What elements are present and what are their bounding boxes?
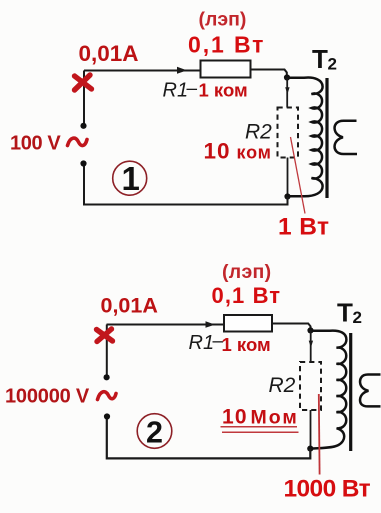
wire: node to R2 top with arrow — [310, 330, 312, 362]
svg-text:R1: R1 — [163, 80, 189, 102]
terminal dot upper — [80, 123, 86, 129]
resistor R2 (dashed) — [278, 108, 299, 158]
terminal dot lower — [80, 160, 86, 166]
terminal dot lower — [104, 413, 110, 419]
wire: left vertical upper — [83, 71, 85, 126]
svg-text:–: – — [187, 79, 198, 100]
wire: bottom return to source — [107, 419, 310, 458]
circled 1 — [113, 161, 147, 195]
wire: top horizontal from source to R1 — [84, 70, 200, 72]
wire: R2 bottom to bottom node — [310, 410, 312, 446]
svg-text:1000 Вт: 1000 Вт — [284, 476, 371, 503]
wire: node to R2 top with arrow — [286, 78, 288, 108]
svg-text:2: 2 — [353, 308, 362, 327]
svg-text:1 Вт: 1 Вт — [278, 214, 329, 241]
pointer line to 1000 Вт — [318, 394, 321, 475]
svg-text:(лэп): (лэп) — [222, 261, 271, 283]
breaker X mark — [97, 329, 113, 342]
svg-text:0,01А: 0,01А — [101, 294, 158, 318]
svg-text:1: 1 — [122, 160, 140, 197]
svg-text:2: 2 — [146, 416, 163, 450]
breaker X mark — [75, 75, 92, 90]
svg-text:ком: ком — [237, 143, 272, 163]
transformer T2 primary winding — [312, 331, 346, 449]
wire: R1 to top node — [251, 70, 287, 78]
AC source squiggle — [98, 392, 117, 400]
transformer T2 primary winding — [290, 78, 323, 197]
transformer secondary winding — [360, 375, 380, 407]
resistor R1 — [224, 315, 272, 332]
node D (bottom junction) — [307, 446, 313, 452]
transformer core — [325, 78, 328, 198]
svg-text:0,01А: 0,01А — [79, 41, 139, 66]
svg-text:10: 10 — [204, 139, 231, 164]
wire: left vertical upper — [106, 325, 108, 378]
wire: bottom return to source — [84, 166, 288, 205]
svg-text:2: 2 — [328, 55, 337, 74]
svg-text:100000 V: 100000 V — [5, 386, 90, 408]
svg-text:R2: R2 — [269, 374, 296, 397]
transformer secondary winding — [335, 121, 357, 154]
svg-text:10: 10 — [222, 406, 248, 429]
svg-text:1 ком: 1 ком — [222, 334, 271, 355]
svg-text:T: T — [312, 44, 328, 74]
node A (top junction) — [284, 74, 290, 80]
node B (bottom junction) — [284, 193, 290, 199]
svg-text:R1: R1 — [189, 332, 215, 354]
circled 2 — [137, 414, 172, 449]
wire: R2 bottom to bottom node — [287, 158, 289, 195]
terminal dot upper — [104, 374, 110, 380]
AC source squiggle — [68, 138, 88, 145]
svg-text:100 V: 100 V — [10, 133, 61, 155]
svg-text:(лэп): (лэп) — [199, 9, 247, 31]
wire: top horizontal from source to R1 — [107, 324, 225, 326]
svg-text:Мом: Мом — [251, 407, 299, 429]
pointer line to 1 Вт — [291, 137, 306, 214]
svg-text:0,1 Вт: 0,1 Вт — [188, 32, 265, 58]
resistor R1 — [201, 61, 251, 78]
node C (top junction) — [307, 327, 313, 333]
current arrow on top wire — [206, 321, 216, 328]
wire: R1 to top node — [272, 324, 311, 331]
transformer core — [349, 333, 352, 451]
resistor R2 (dashed) — [300, 362, 321, 410]
svg-text:0,1 Вт: 0,1 Вт — [212, 283, 282, 308]
svg-text:R2: R2 — [245, 121, 272, 144]
current arrow on top wire — [177, 67, 187, 74]
svg-text:T: T — [337, 298, 353, 328]
svg-text:1 ком: 1 ком — [199, 80, 248, 101]
